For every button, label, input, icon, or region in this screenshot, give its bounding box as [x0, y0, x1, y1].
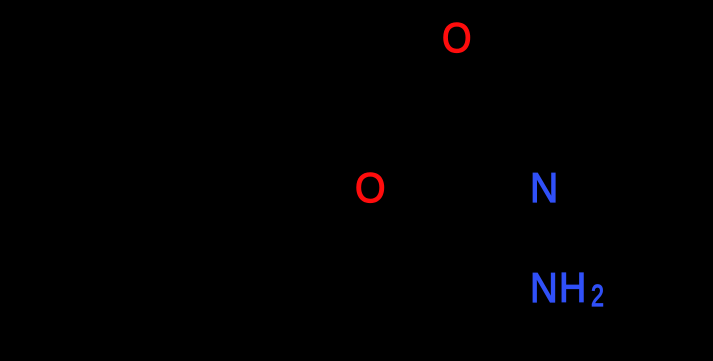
subscript 2 of NH2 group [591, 280, 604, 311]
bond N - CH2 (ethyl) [558, 117, 638, 180]
atom N1 (ring nitrogen) [530, 167, 558, 209]
carbonyl C=O double bond [445, 62, 459, 116]
benzene ring C1-C6 [38, 85, 202, 272]
benzylic CH2 bond [202, 57, 300, 130]
bond C(carbonyl) - N [455, 120, 528, 172]
atom H of NH2 group [559, 267, 586, 309]
atom O1 (carbonyl oxygen) [442, 17, 472, 59]
bond O(ester) - C(carbonyl) [385, 120, 455, 178]
bond N - NH2 [539, 208, 547, 266]
atom O2 (ester oxygen) [355, 167, 386, 209]
bond CH2 - O(ester) [300, 57, 362, 170]
aromatic double bonds [54, 103, 186, 254]
bond CH2 - CH3 (ethyl) [638, 117, 710, 152]
atom N2 of NH2 group [530, 267, 558, 309]
